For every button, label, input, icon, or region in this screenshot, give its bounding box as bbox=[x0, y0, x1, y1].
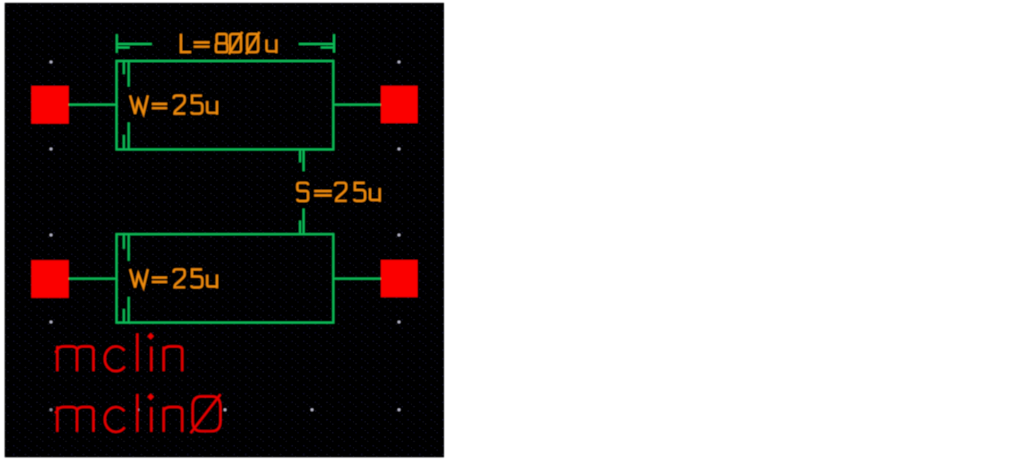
spacing stub lower tick bbox=[299, 221, 301, 235]
CL2 gap tick top A bbox=[123, 234, 125, 249]
dimension marker left bar bbox=[116, 34, 118, 53]
mclin i dot bbox=[148, 334, 153, 339]
wire CL2 to port4 bbox=[333, 278, 381, 280]
CL2 gap tick bottom B bbox=[128, 297, 130, 323]
CL1 gap tick top A bbox=[123, 61, 125, 74]
port P1 terminal bbox=[31, 86, 68, 124]
wire port3 to CL2 bbox=[69, 278, 117, 280]
wire port1 to CL1 bbox=[69, 104, 117, 106]
dimension marker right arrow line bbox=[299, 43, 335, 45]
port P3 terminal bbox=[31, 260, 68, 298]
coupled line CL2 body bbox=[117, 234, 334, 322]
CL2 gap tick bottom A bbox=[123, 309, 125, 323]
label S=25u bbox=[297, 183, 379, 202]
CL1 gap tick top B bbox=[128, 61, 130, 87]
instance name mclin0 bbox=[55, 394, 220, 433]
canvas fine grid texture bbox=[5, 3, 444, 457]
CL1 gap tick bottom B bbox=[128, 123, 130, 150]
spacing stub upper tick bbox=[299, 149, 301, 162]
spacing stub upper main bbox=[303, 149, 305, 171]
port P2 terminal bbox=[381, 86, 418, 123]
wire CL1 to port2 bbox=[333, 104, 381, 106]
dimension marker right bar bbox=[333, 34, 335, 52]
port P4 terminal bbox=[381, 260, 418, 297]
grid reference dots bbox=[50, 61, 401, 412]
label L=800u bbox=[181, 32, 276, 54]
spacing stub lower main bbox=[303, 209, 305, 235]
component name mclin bbox=[55, 334, 182, 372]
mclin0 i dot bbox=[148, 394, 153, 399]
schematic canvas background bbox=[5, 3, 444, 457]
label W=25u (CL2) bbox=[130, 269, 217, 288]
label W=25u (CL1) bbox=[130, 96, 217, 115]
dimension marker left short line bbox=[116, 46, 130, 48]
coupled line CL1 body bbox=[117, 61, 334, 149]
dimension marker left arrow line bbox=[116, 43, 152, 45]
CL1 gap tick bottom A bbox=[123, 135, 125, 149]
CL2 gap tick top B bbox=[128, 234, 130, 261]
dimension marker right short line bbox=[321, 46, 335, 48]
